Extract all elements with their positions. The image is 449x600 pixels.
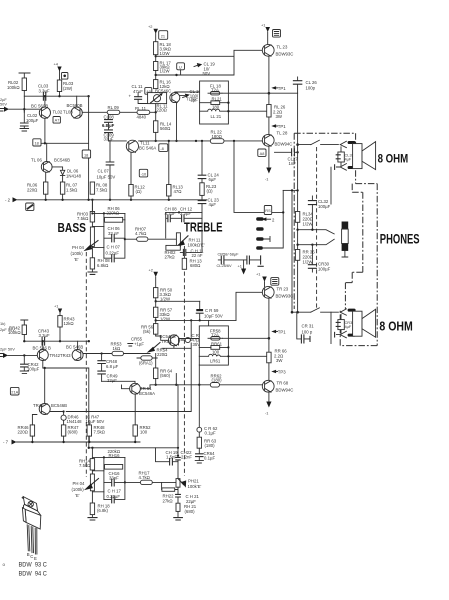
svg-text:BC546B: BC546B <box>51 403 67 408</box>
svg-text:220Ω: 220Ω <box>157 352 168 357</box>
lower bass pot column <box>91 448 93 518</box>
transistor TR43 BC546B <box>72 350 83 361</box>
svg-text:180: 180 <box>212 105 220 110</box>
indicator box lower right <box>271 278 279 286</box>
assembly outline right upper <box>340 133 377 345</box>
svg-text:BC546A: BC546A <box>139 391 155 396</box>
bass pot column <box>91 200 93 272</box>
terminal bar 3rd with stub <box>256 237 263 240</box>
svg-text:7.5kΩ: 7.5kΩ <box>94 430 106 435</box>
resistor RR62 oval <box>210 383 219 388</box>
svg-text:+1µF: +1µF <box>134 342 144 347</box>
svg-text:BC 560B: BC 560B <box>31 103 48 108</box>
terminal bar 1b <box>348 166 356 169</box>
resistor RR47 <box>61 425 65 436</box>
package mounting hole <box>28 502 33 507</box>
svg-text:27kΩ: 27kΩ <box>165 255 176 260</box>
svg-text:(6RA1): (6RA1) <box>139 361 153 366</box>
TR50 base from chain <box>156 336 169 340</box>
diode DR46 <box>50 412 64 416</box>
box 18 on line <box>82 150 90 158</box>
capacitor CL16 <box>185 94 190 98</box>
resistor RR53 oval <box>112 351 124 355</box>
svg-text:PH 04: PH 04 <box>72 245 85 250</box>
treble pot wiper arrow <box>181 236 189 243</box>
svg-text:BC 546 B: BC 546 B <box>33 345 52 350</box>
switch arm upper <box>317 230 335 234</box>
svg-text:33µF: 33µF <box>104 137 114 142</box>
wire to TR51 <box>102 381 135 383</box>
svg-text:BC 546A: BC 546A <box>139 146 156 151</box>
svg-text:TP1: TP1 <box>278 86 286 91</box>
lower contact speaker 2 <box>336 331 346 338</box>
rail y=447.8 <box>89 447 178 449</box>
svg-text:4.7kΩ: 4.7kΩ <box>135 231 147 236</box>
svg-text:100µF: 100µF <box>318 267 331 272</box>
svg-text:(560): (560) <box>160 373 171 378</box>
svg-text:TR 23: TR 23 <box>277 287 289 292</box>
svg-text:6.8 µF: 6.8 µF <box>102 123 115 128</box>
stub x=176 <box>175 374 177 385</box>
svg-text:220Ω: 220Ω <box>27 188 38 193</box>
resistor RL22 <box>210 139 224 144</box>
svg-text:4µF: 4µF <box>345 324 352 329</box>
wire input to TL02 base <box>9 108 39 110</box>
wire TL03 to CL08 column <box>82 111 107 113</box>
capacitor CL07 hang <box>109 141 111 200</box>
resistor RL02 <box>22 78 26 91</box>
wire TR42 down / across <box>43 361 89 448</box>
bass network columns <box>104 213 125 258</box>
resistor RL34 <box>295 212 299 223</box>
svg-text:100kΩ: 100kΩ <box>8 330 21 335</box>
top bar RR42 <box>21 320 28 325</box>
svg-text:3.3µF: 3.3µF <box>39 89 50 94</box>
capacitor CR62 <box>197 427 202 432</box>
svg-text:TL03: TL03 <box>63 110 73 115</box>
svg-text:BDW 93 C: BDW 93 C <box>19 562 48 568</box>
resistor RH02 27k <box>166 245 180 250</box>
svg-text:B: B <box>27 552 30 557</box>
svg-text:TL 28: TL 28 <box>277 131 288 136</box>
svg-text:CL28/6V: CL28/6V <box>217 263 233 268</box>
capacitor CR31 <box>297 312 310 339</box>
svg-text:22 nF: 22 nF <box>192 253 203 258</box>
svg-text:-8: -8 <box>160 146 163 151</box>
svg-text:CL 07: CL 07 <box>98 169 110 174</box>
svg-text:+1: +1 <box>238 264 242 269</box>
svg-text:8 OHM: 8 OHM <box>378 151 409 165</box>
svg-text:TP1: TP1 <box>278 330 286 335</box>
svg-text:-10: -10 <box>141 171 147 176</box>
svg-text:1N4148: 1N4148 <box>66 174 82 179</box>
phones jack symbol <box>342 222 349 230</box>
svg-text:6.8kΩ: 6.8kΩ <box>97 263 109 268</box>
TL06 base wire to DL06 column <box>52 167 63 170</box>
svg-text:2.2µF: 2.2µF <box>180 211 191 216</box>
CL08 column caps <box>108 112 110 141</box>
svg-text:1µF: 1µF <box>191 98 199 103</box>
svg-text:-1: -1 <box>265 411 268 416</box>
svg-text:180Ω: 180Ω <box>212 134 223 139</box>
tone rail y=198.4 <box>18 199 207 201</box>
resistor RL07 <box>60 182 64 194</box>
resistor RR48 <box>87 425 91 436</box>
output rail upper amp <box>297 93 299 312</box>
lower bass pot track <box>90 474 94 491</box>
resistor RL08 column <box>91 200 93 212</box>
transistor TR42 BC546B <box>37 350 48 361</box>
svg-text:6µF: 6µF <box>209 177 217 182</box>
svg-text:100p: 100p <box>306 86 316 91</box>
svg-text:6.8 µF: 6.8 µF <box>106 364 119 369</box>
svg-text:CL08: CL08 <box>104 114 115 119</box>
resistor RL26 <box>267 105 271 118</box>
test point TP1 lower <box>271 124 276 127</box>
svg-text:C R 59: C R 59 <box>205 308 219 313</box>
capacitor CL03 <box>43 92 45 100</box>
capacitor CL32 <box>311 196 313 230</box>
svg-text:RS: RS <box>265 208 271 213</box>
svg-text:+1: +1 <box>54 304 58 309</box>
svg-text:100µF: 100µF <box>27 367 40 372</box>
capacitor CR33 box <box>340 314 342 333</box>
svg-text:BDW94C: BDW94C <box>276 388 294 393</box>
svg-text:47Ω: 47Ω <box>174 189 183 194</box>
transistor TL06 BC546B <box>41 162 52 173</box>
transistor TL11 BC546A <box>126 140 138 152</box>
svg-text:1/2W: 1/2W <box>160 69 171 74</box>
wire TL02 down to y143 <box>44 118 46 143</box>
svg-text:2.2nF: 2.2nF <box>181 454 192 459</box>
svg-text:1kΩ: 1kΩ <box>113 346 122 351</box>
svg-text:4µF: 4µF <box>209 202 217 207</box>
resistor RH22 <box>162 482 178 494</box>
resistor RR63 <box>197 437 201 448</box>
resistor RH08 <box>90 258 94 269</box>
indicator box top right <box>273 30 281 38</box>
svg-text:PH 04: PH 04 <box>73 481 86 486</box>
svg-text:4µF: 4µF <box>345 157 352 162</box>
package legs <box>27 525 37 554</box>
base wire y=384.8 <box>140 385 262 389</box>
RR54b column <box>155 354 157 369</box>
svg-text:1k): 1k) <box>0 321 6 326</box>
resistor RH03 <box>90 212 94 223</box>
trimmer box with transistor <box>148 93 167 104</box>
svg-text:+1: +1 <box>261 23 265 28</box>
svg-text:C: C <box>30 554 33 559</box>
caps CR48/CR49 column <box>101 354 103 382</box>
lower treble pot track <box>176 479 180 488</box>
svg-text:TR42: TR42 <box>50 353 61 358</box>
indicator box RS <box>264 206 271 215</box>
bass pot wiper arrow <box>88 241 98 249</box>
svg-text:33µF: 33µF <box>107 378 117 383</box>
svg-text:7.5kΩ: 7.5kΩ <box>79 463 91 468</box>
resistor RR66 <box>268 338 270 352</box>
resistor RR46 <box>30 425 34 436</box>
svg-text:4.7µF: 4.7µF <box>165 211 176 216</box>
svg-text:1/2W: 1/2W <box>303 222 314 227</box>
svg-text:(680): (680) <box>185 509 196 514</box>
svg-text:3W: 3W <box>276 358 283 363</box>
ground bass <box>88 272 97 274</box>
svg-text:BASS: BASS <box>58 220 87 235</box>
svg-text:100µF: 100µF <box>26 118 39 123</box>
wire y=301 to CR59 <box>156 300 200 302</box>
bass network rows <box>92 213 125 247</box>
arrow +2 at terminal <box>262 217 267 221</box>
resistor RL16 <box>154 80 158 89</box>
test point TP2 <box>271 330 276 333</box>
svg-text:BC546B: BC546B <box>54 158 70 163</box>
wire input2 to TR42 <box>8 354 37 356</box>
resistor RR56 <box>154 324 158 335</box>
resistor RL12 <box>129 185 133 197</box>
transistor TR50 BC546C <box>168 335 179 346</box>
wire rail y=341 <box>24 340 89 342</box>
box with hatch near rail <box>26 203 34 210</box>
svg-text:1nF: 1nF <box>289 161 297 166</box>
svg-text:BDW93C: BDW93C <box>276 52 294 57</box>
lower bass columns <box>104 457 125 499</box>
feedback path from terminals <box>234 141 283 248</box>
svg-text:100: 100 <box>212 349 220 354</box>
resistor RR57 <box>154 307 158 317</box>
output wire lower y=338 <box>222 337 269 339</box>
svg-text:'E': 'E' <box>75 493 80 498</box>
wire RL02 bottom to input node <box>23 91 25 113</box>
svg-text:(6.8k): (6.8k) <box>97 508 109 513</box>
svg-text:(2W): (2W) <box>63 86 73 91</box>
indicator box with dot <box>62 73 68 80</box>
chain down to RL14 <box>155 104 157 121</box>
svg-text:8 OHM: 8 OHM <box>379 319 412 334</box>
contact arrows speaker 1 <box>340 141 346 147</box>
svg-text:680Ω: 680Ω <box>190 263 201 268</box>
svg-text:4840: 4840 <box>137 115 147 120</box>
svg-text:(Ω): (Ω) <box>207 189 214 194</box>
resistor RH21 680 <box>177 497 179 503</box>
box U <box>177 63 185 70</box>
svg-text:U: U <box>179 64 182 69</box>
TR23 emitter down <box>268 298 270 338</box>
terminal bar 1a <box>348 141 356 144</box>
fuse box upper <box>200 81 229 124</box>
svg-text:E: E <box>34 556 37 561</box>
package body <box>25 509 41 529</box>
svg-text:+2: +2 <box>149 267 153 272</box>
svg-text:+2: +2 <box>148 24 152 29</box>
TR23 base wire <box>236 292 262 320</box>
svg-text:TR43: TR43 <box>60 353 71 358</box>
transistor TR68 BDW94C <box>262 380 274 392</box>
svg-text:LL 21: LL 21 <box>211 114 222 119</box>
speaker 2 return wire <box>330 312 332 343</box>
svg-text:BDW93C: BDW93C <box>276 294 294 299</box>
resistor RR36 <box>295 250 299 261</box>
svg-text:-1: -1 <box>265 177 268 182</box>
svg-text:100: 100 <box>140 430 148 435</box>
resistor RH14 <box>90 459 94 470</box>
svg-text:10µF 50V: 10µF 50V <box>86 419 105 424</box>
svg-text:BDW94C: BDW94C <box>275 142 293 147</box>
resistor RL14 <box>154 121 158 133</box>
svg-text:220Ω: 220Ω <box>18 430 29 435</box>
dashed link treble pots <box>183 272 185 477</box>
svg-text:(5k): (5k) <box>143 329 151 334</box>
svg-text:'E': 'E' <box>74 257 79 262</box>
TR46 collector up <box>44 368 46 404</box>
phones switch wires <box>298 230 317 245</box>
treble pot track <box>176 233 180 247</box>
resistor RH18 <box>90 503 94 515</box>
TL23 emitter down to output <box>268 56 270 104</box>
svg-text:(Ω): (Ω) <box>136 189 143 194</box>
capacitor CH11 <box>180 251 190 253</box>
TR51 base stub <box>122 385 130 389</box>
capacitor CR42 <box>23 355 25 363</box>
svg-text:0.22µF: 0.22µF <box>106 251 120 256</box>
wire rect to TL23 base <box>156 50 263 75</box>
svg-text:560Ω: 560Ω <box>160 126 171 131</box>
resistor RR42 <box>22 325 26 335</box>
wire TL17 emitter down <box>176 102 178 141</box>
terminal bar 2a <box>348 309 356 312</box>
svg-text:BDW 94 C: BDW 94 C <box>19 571 48 577</box>
transistor TL28 BDW94C <box>262 134 274 146</box>
wire y=143 <box>41 142 89 144</box>
wire into fuse row lower <box>179 339 200 346</box>
speaker 1 symbol <box>353 144 362 169</box>
capacitor CR59 <box>199 301 201 320</box>
terminal bar 4th <box>256 246 263 249</box>
svg-text:100kΩ: 100kΩ <box>7 85 20 90</box>
switch blade 2 <box>311 308 320 312</box>
wire TL17 collector to fuse row <box>175 91 200 94</box>
wire x=88.5 down through box <box>88 96 90 198</box>
svg-text:TREBLE: TREBLE <box>184 221 223 235</box>
svg-text:PH21: PH21 <box>188 479 199 484</box>
capacitor CL26 on output rail <box>297 77 299 93</box>
svg-text:21A: 21A <box>11 389 18 394</box>
TL06 emitter down to RL06 <box>45 172 47 182</box>
svg-text:10µF 50V: 10µF 50V <box>97 175 116 180</box>
lower middle cluster: wire y=353.5 <box>83 353 150 355</box>
speaker 2 symbol <box>353 311 362 336</box>
svg-text:TL 23: TL 23 <box>277 45 288 50</box>
svg-text:TL 06: TL 06 <box>31 158 42 163</box>
box 18 left <box>33 139 41 146</box>
svg-text:(100k): (100k) <box>72 487 85 492</box>
transistor TR46 BC546B <box>39 404 50 415</box>
rail -7 <box>17 441 141 443</box>
svg-text:LR61: LR61 <box>210 359 221 364</box>
svg-text:(100k): (100k) <box>71 251 84 256</box>
ground lower treble <box>177 511 179 517</box>
svg-text:1/2W: 1/2W <box>303 260 314 265</box>
svg-text:1/2W: 1/2W <box>160 51 171 56</box>
svg-text:1.5nF: 1.5nF <box>166 454 177 459</box>
lower bass pot arrow <box>89 479 99 488</box>
box A5 <box>145 88 152 95</box>
mechanical link dashed <box>316 147 318 309</box>
resistor RL17 <box>154 62 158 71</box>
svg-text:TR46: TR46 <box>33 403 44 408</box>
svg-text:TR 68: TR 68 <box>277 381 289 386</box>
svg-text:0.1µF: 0.1µF <box>204 456 215 461</box>
svg-text:18: 18 <box>84 152 88 157</box>
capacitor CR56 <box>185 337 190 342</box>
svg-text:(180): (180) <box>205 443 216 448</box>
svg-text:TP3: TP3 <box>278 370 286 375</box>
capacitor CR64 <box>196 454 203 457</box>
speaker 2 wire with switch <box>292 311 338 313</box>
node dots on rail <box>58 95 60 97</box>
TR68 emitter down arrow -1 <box>268 392 270 401</box>
svg-text:RL 09: RL 09 <box>108 105 120 110</box>
phones inner outline <box>345 184 362 310</box>
svg-text:10µF 50V: 10µF 50V <box>204 314 223 319</box>
box 21 <box>159 31 168 40</box>
svg-text:A7: A7 <box>55 118 60 123</box>
inductor LR61 row <box>199 354 266 356</box>
box -8 <box>159 144 168 152</box>
transistor TL23 BDW93C <box>262 44 274 56</box>
terminal bar 2nd <box>256 227 263 230</box>
resistor RL18 <box>154 42 158 55</box>
svg-text:(180): (180) <box>212 378 223 383</box>
resistor RH17 lower <box>124 481 126 483</box>
box 21A <box>10 387 19 395</box>
lower treble column from base wire <box>177 385 179 456</box>
svg-text:CR 31: CR 31 <box>302 324 315 329</box>
svg-text:BC 546B: BC 546B <box>66 345 83 350</box>
svg-text:PHONES: PHONES <box>380 231 420 246</box>
svg-text:1/2W: 1/2W <box>160 297 171 302</box>
svg-text:(680): (680) <box>68 430 79 435</box>
svg-text:+1: +1 <box>256 272 260 277</box>
svg-text:TR50: TR50 <box>161 339 172 344</box>
transistor TR23 BDW93C <box>262 286 274 298</box>
svg-text:2µF 50V: 2µF 50V <box>0 347 15 352</box>
switch arm lower <box>317 239 335 244</box>
wire y=320 <box>156 319 236 321</box>
resistor RR43 <box>58 316 62 327</box>
resistor RR50 <box>154 288 158 298</box>
CL24 / RL23 / CL23 column <box>201 141 203 213</box>
emitter wires to top rail <box>45 96 77 107</box>
svg-text:7.5kΩ: 7.5kΩ <box>77 216 89 221</box>
terminal bar 2b <box>348 334 356 337</box>
output wire y=93 <box>222 92 298 94</box>
svg-text:50V: 50V <box>203 71 211 76</box>
capacitor CL27 <box>275 151 298 153</box>
resistor RR52b <box>133 425 137 436</box>
svg-text:21: 21 <box>161 34 165 39</box>
assembly outline dash-dot top <box>294 132 355 134</box>
treble cap row <box>166 212 202 238</box>
resistor RL03 <box>57 80 61 92</box>
bias trimmer lower <box>151 343 160 351</box>
svg-text:12kΩ: 12kΩ <box>64 321 75 326</box>
svg-text:50V: 50V <box>0 102 7 107</box>
switch blade 1 <box>311 140 320 144</box>
assembly outline left <box>293 133 295 309</box>
TL06 collector up <box>46 143 48 161</box>
transistor package tab <box>23 497 37 511</box>
